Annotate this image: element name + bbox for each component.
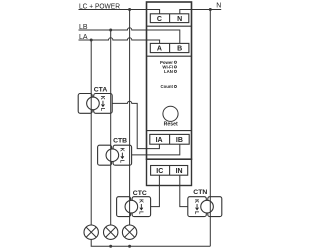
svg-text:K: K [99, 96, 105, 100]
svg-text:IC: IC [156, 168, 163, 175]
svg-text:L: L [138, 211, 144, 215]
svg-text:L: L [99, 108, 105, 112]
svg-text:B: B [177, 46, 182, 53]
svg-text:CTN: CTN [193, 189, 207, 196]
svg-text:L: L [119, 160, 125, 164]
svg-text:IA: IA [156, 137, 163, 144]
svg-text:Reset: Reset [164, 122, 178, 128]
svg-text:LA: LA [79, 34, 88, 41]
svg-text:LB: LB [79, 24, 88, 31]
svg-text:L: L [193, 211, 199, 215]
svg-text:N: N [177, 16, 182, 23]
svg-text:K: K [119, 148, 125, 152]
svg-text:CTC: CTC [133, 190, 147, 197]
svg-text:LAN: LAN [164, 69, 173, 74]
svg-text:IN: IN [176, 168, 183, 175]
svg-text:IB: IB [176, 137, 183, 144]
svg-text:CTB: CTB [113, 138, 127, 145]
svg-text:K: K [193, 199, 199, 203]
svg-text:CTA: CTA [94, 86, 108, 93]
svg-text:LC + POWER: LC + POWER [79, 3, 120, 10]
svg-text:Count: Count [160, 84, 173, 89]
svg-text:N: N [216, 3, 221, 10]
svg-text:C: C [157, 16, 162, 23]
svg-text:A: A [157, 46, 162, 53]
svg-text:K: K [138, 199, 144, 203]
